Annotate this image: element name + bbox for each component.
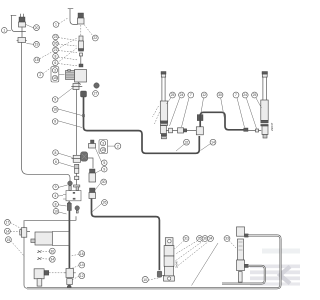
left edge callout 17: [5, 220, 11, 226]
svg-text:8: 8: [54, 120, 56, 124]
sensor stem: [21, 27, 23, 37]
svg-text:8: 8: [55, 55, 57, 59]
solenoid block A: [31, 232, 69, 246]
svg-text:18: 18: [35, 58, 39, 62]
fitting right port: [244, 128, 248, 131]
link box to callout 2b: [108, 145, 115, 147]
callout 30: [217, 92, 223, 98]
leader: [58, 88, 73, 99]
svg-text:4: 4: [54, 194, 56, 198]
port line left cylinder: [166, 130, 196, 132]
callout 19: [34, 42, 40, 48]
callout 10: [53, 209, 59, 215]
svg-text:15: 15: [53, 76, 57, 80]
svg-text:8: 8: [55, 151, 57, 155]
svg-text:35: 35: [198, 237, 202, 241]
svg-text:30: 30: [102, 180, 106, 184]
callout 25 L: [170, 92, 176, 98]
leader 6: [58, 64, 78, 67]
svg-text:7: 7: [235, 93, 237, 97]
cross fitting X5: [65, 269, 76, 278]
callout 4: [53, 193, 59, 199]
callout 1: [2, 28, 8, 34]
callout 2b: [115, 143, 121, 149]
svg-text:20: 20: [35, 26, 39, 30]
svg-text:14: 14: [80, 263, 84, 267]
pipe manifold to cross: [68, 211, 70, 269]
callout 24 L: [179, 92, 185, 98]
nut under cross: [67, 279, 73, 285]
port top: [245, 234, 249, 237]
callout 8: [53, 202, 59, 208]
svg-text:21: 21: [54, 48, 58, 52]
callout 32: [184, 139, 190, 145]
callout 9t: [52, 97, 58, 103]
svg-text:24: 24: [180, 93, 184, 97]
elbow at bottom cylinder: [157, 271, 164, 277]
tee T2: [72, 155, 82, 162]
svg-text:30: 30: [218, 93, 222, 97]
watermark logo: [250, 249, 300, 286]
svg-text:17: 17: [6, 221, 10, 225]
callout 14: [79, 262, 85, 268]
valve block B2: [75, 70, 87, 85]
right cylinder rod: [262, 72, 268, 101]
svg-text:27: 27: [94, 92, 98, 96]
svg-text:9: 9: [54, 98, 56, 102]
left edge callout 15: [5, 237, 11, 243]
svg-text:30: 30: [50, 249, 54, 253]
hex fitting under sensor: [17, 38, 27, 43]
small fitting: [75, 176, 79, 179]
callout 33: [224, 236, 230, 242]
svg-text:15: 15: [101, 148, 105, 152]
screws: [38, 251, 50, 260]
callout 8 lower: [52, 119, 58, 125]
central stack line: [76, 90, 78, 156]
svg-text:14: 14: [6, 229, 10, 233]
cartridge D2: [89, 188, 96, 199]
svg-text:16: 16: [80, 252, 84, 256]
callout 24 R: [242, 92, 248, 98]
callout 27: [93, 91, 99, 97]
callout 8: [53, 150, 59, 156]
svg-text:36: 36: [203, 237, 207, 241]
svg-text:32: 32: [185, 140, 189, 144]
bottom mini cylinder: [164, 238, 175, 281]
svg-text:12: 12: [202, 93, 206, 97]
elbow D above tee: [197, 115, 203, 121]
box 3/15 left: [51, 67, 65, 83]
svg-text:22: 22: [93, 36, 97, 40]
svg-text:15: 15: [7, 238, 11, 242]
long leader 34 to pipe: [192, 243, 219, 286]
leader 22: [84, 25, 93, 36]
inner pipe from bottom port: [222, 266, 265, 284]
bracket assembly right: [237, 227, 245, 282]
callout 10 on pipe: [142, 277, 148, 283]
svg-text:25: 25: [253, 93, 257, 97]
callout 34: [208, 236, 214, 242]
dark cartridge under manifold: [67, 201, 71, 211]
cartridge part A2: [79, 36, 84, 56]
callout 12: [79, 273, 85, 279]
flange: [74, 185, 80, 187]
svg-text:2: 2: [117, 144, 119, 148]
manifold M1: [63, 191, 81, 201]
outer pipe from top port: [248, 236, 280, 289]
callout 22: [92, 35, 98, 41]
svg-text:9: 9: [55, 185, 57, 189]
bottom long pipe: [27, 287, 277, 289]
leader: [58, 109, 82, 116]
wire top assembly 2: [68, 9, 78, 25]
callout 2: [37, 72, 43, 78]
svg-text:16: 16: [53, 108, 57, 112]
svg-text:14: 14: [211, 140, 215, 144]
callout 35: [197, 236, 203, 242]
callout 8t: [53, 54, 59, 60]
callout 16 mid: [52, 107, 58, 113]
leader 19: [26, 43, 33, 46]
dashed stem under valve: [80, 25, 82, 36]
callout 36: [202, 236, 208, 242]
svg-text:7: 7: [190, 93, 192, 97]
callout 18: [34, 57, 40, 63]
callout 1b: [53, 22, 59, 28]
leader 1: [7, 30, 11, 32]
svg-text:2x047: 2x047: [175, 260, 179, 268]
pipe from cartridge to bottom cylinder: [92, 199, 160, 271]
callout 31: [183, 236, 189, 242]
bolt dot: [67, 285, 71, 289]
sensor S1: [19, 14, 26, 27]
cartridge D1: [89, 169, 96, 182]
thin line to right cylinder: [248, 129, 261, 131]
svg-text:3: 3: [102, 141, 104, 145]
cartridge stack right: small valve V4: [89, 140, 96, 148]
svg-text:31: 31: [184, 237, 188, 241]
svg-text:5: 5: [103, 161, 105, 165]
callout 26: [102, 200, 108, 206]
callout 9: [53, 184, 59, 190]
svg-text:10: 10: [143, 278, 147, 282]
svg-text:2: 2: [39, 73, 41, 77]
svg-text:10: 10: [54, 210, 58, 214]
left cylinder body: [160, 101, 167, 139]
leader: [58, 121, 82, 128]
coil C2: [66, 70, 75, 80]
left cylinder rod: [161, 72, 166, 102]
svg-text:25: 25: [171, 93, 175, 97]
callout 7 L: [188, 92, 194, 98]
svg-text:1: 1: [55, 23, 57, 27]
callout 12: [201, 92, 207, 98]
svg-text:6: 6: [54, 61, 56, 65]
banjo right under manifold: [75, 206, 80, 213]
stack line 2: [76, 180, 78, 185]
callout 16: [79, 251, 85, 257]
tee C: [196, 127, 203, 135]
stack line: [76, 173, 78, 176]
banjo elbow W1: [68, 181, 73, 190]
svg-text:1: 1: [3, 29, 5, 33]
svg-text:34: 34: [209, 237, 213, 241]
svg-text:23: 23: [54, 35, 58, 39]
callout 25 R: [252, 92, 258, 98]
valve V2: [78, 13, 85, 24]
leader 2: [43, 48, 77, 74]
dark elbow E4: [81, 152, 94, 168]
callout 7 R: [233, 92, 239, 98]
left feed line: [24, 221, 28, 289]
dashed marks left of cylinder: [153, 106, 160, 124]
long line from fitting down and right: [22, 43, 70, 182]
main pipe from elbow E3 to tee near cylinders: [84, 97, 200, 153]
nut right port: [256, 129, 259, 132]
svg-text:24: 24: [243, 93, 247, 97]
svg-text:8: 8: [55, 203, 57, 207]
box 3/15 right: [99, 140, 108, 154]
svg-text:26: 26: [54, 42, 58, 46]
callout 5: [102, 160, 108, 166]
connector stem right: [76, 187, 79, 191]
callout 30 screws: [49, 248, 55, 254]
svg-text:29047: 29047: [270, 122, 274, 131]
top cylinder pipe: [200, 112, 243, 130]
callout 21: [53, 47, 59, 53]
svg-text:6: 6: [55, 160, 57, 164]
fitting B: [178, 128, 187, 133]
callout 30: [101, 179, 107, 185]
sleeve on pipe: [82, 114, 85, 117]
callout 9: [102, 166, 108, 172]
svg-text:19: 19: [35, 43, 39, 47]
tee T6 on left line: [20, 228, 30, 238]
callout 26b: [53, 41, 59, 47]
svg-text:3: 3: [54, 69, 56, 73]
callout 6: [53, 159, 59, 165]
tee T3: [72, 84, 83, 90]
svg-text:12: 12: [80, 274, 84, 278]
callout 14 pipe: [210, 139, 216, 145]
leader 18: [40, 38, 78, 59]
callout 6: [53, 60, 59, 66]
elbow E3: [81, 91, 87, 97]
dark grommet callout 28: [94, 83, 99, 88]
right cylinder body: [261, 100, 268, 138]
dashed link to cross: [49, 272, 65, 274]
nut N2: [79, 64, 83, 67]
horizontal link line y=220: [25, 217, 76, 221]
fitting nutA: [169, 128, 173, 133]
leader 20: [26, 24, 34, 28]
callout 23b: [53, 34, 59, 40]
svg-text:9: 9: [103, 167, 105, 171]
left edge callout 14: [5, 228, 11, 234]
svg-text:33: 33: [225, 237, 229, 241]
wire harness top-left: [11, 15, 26, 31]
stem to nut: [80, 56, 82, 64]
callout 24 screws: [49, 256, 55, 262]
svg-text:34: 34: [50, 258, 54, 262]
svg-text:26: 26: [103, 201, 107, 205]
callout 20: [34, 25, 40, 31]
port bottom: [245, 264, 249, 267]
nipple N4: [75, 164, 79, 173]
valve block B lower: [34, 269, 49, 286]
